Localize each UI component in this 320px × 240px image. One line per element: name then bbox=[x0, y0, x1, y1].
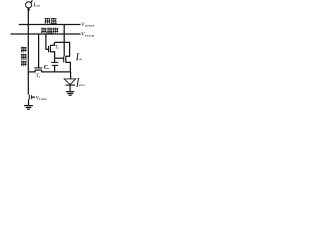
photodiode cathode bar bbox=[66, 84, 76, 86]
terminal circle (output port) bbox=[26, 2, 32, 8]
svg-text:reset: reset bbox=[85, 24, 95, 28]
wire: data line vertical bbox=[27, 8, 29, 95]
transistor T2 gate bar bbox=[34, 67, 42, 69]
wire: T1 drain to top wire bbox=[51, 42, 55, 45]
wire: drop from line2 to T2 gate bbox=[38, 34, 40, 68]
photodiode triangle bbox=[64, 79, 76, 85]
text line1 chinese char 1 bbox=[45, 18, 51, 24]
wire: row line 2 (second horizontal) bbox=[11, 33, 81, 35]
wire: photodiode cathode to ground bbox=[69, 85, 71, 91]
transistor T2 channel bar bbox=[35, 69, 42, 71]
svg-text:out: out bbox=[35, 4, 40, 8]
ground under photodiode bbox=[66, 92, 74, 96]
wire: drop from line2 to T1 gate bbox=[46, 34, 48, 49]
wire: photodiode anode lead bbox=[70, 72, 72, 79]
transistor T3 channel bar bbox=[65, 56, 67, 63]
text data-line chinese char 3 (vertical) bbox=[21, 61, 27, 67]
svg-text:bias: bias bbox=[39, 97, 48, 101]
wire: row line 1 (top horizontal) bbox=[19, 24, 81, 26]
transistor T2 drain leg bbox=[34, 70, 36, 72]
load transistor channel bar bbox=[28, 95, 30, 100]
transistor T1 channel bar bbox=[49, 45, 51, 53]
transistor T2 source leg bbox=[41, 70, 43, 72]
wire: cap bottom lead bbox=[54, 65, 56, 72]
ground bottom left bbox=[24, 106, 33, 110]
text data-line chinese char 1 (vertical) bbox=[21, 47, 27, 53]
capacitor Cs bottom plate bbox=[52, 64, 58, 66]
wire: drop from line1 to T3 gate bbox=[63, 25, 65, 57]
text data-line chinese char 2 (vertical) bbox=[21, 54, 27, 60]
load transistor gate lead bbox=[32, 96, 35, 98]
wire: T1 source down to cap node bbox=[51, 52, 55, 58]
text line1 chinese char 2 bbox=[51, 18, 57, 24]
svg-text:photo: photo bbox=[79, 83, 85, 87]
capacitor Cs top plate bbox=[51, 61, 58, 63]
wire: node horizontal left segment (data line to T2) bbox=[28, 71, 35, 73]
wire: node horizontal right segment (T2 to photodiode) bbox=[42, 71, 71, 73]
transistor T3 gate bar bbox=[63, 57, 65, 63]
transistor T1 gate bar bbox=[48, 46, 50, 52]
text line2 chinese char 1 bbox=[41, 28, 47, 34]
label I out (T3 drain current) bbox=[77, 53, 78, 60]
text line2 chinese char 2 bbox=[47, 28, 53, 34]
svg-text:out: out bbox=[79, 57, 83, 61]
wire: cap top lead bbox=[54, 58, 56, 62]
load transistor gate bar bbox=[31, 95, 33, 99]
load transistor source lead bbox=[28, 99, 30, 105]
svg-text:scan: scan bbox=[85, 33, 96, 37]
text line2 chinese char 3 bbox=[53, 28, 58, 34]
arrowhead on data line below circle bbox=[27, 9, 30, 13]
wire: T3 source down to node bbox=[66, 62, 71, 72]
tick at circle top right bbox=[31, 1, 33, 3]
wire: cap node horizontal to T3 gate bbox=[55, 57, 64, 59]
label I photo (photodiode) bbox=[77, 78, 78, 86]
wire: top wire to T3 drain bbox=[54, 42, 69, 56]
